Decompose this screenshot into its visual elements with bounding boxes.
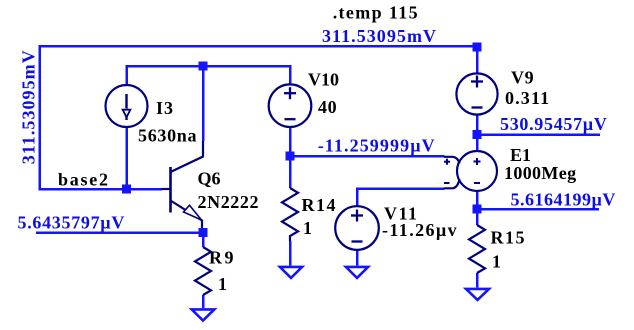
svg-text:-11.26µv: -11.26µv [382, 220, 458, 240]
svg-text:40: 40 [318, 97, 337, 117]
svg-text:1: 1 [218, 274, 227, 294]
svg-text:R14: R14 [302, 195, 338, 215]
svg-text:R9: R9 [209, 248, 236, 268]
svg-text:1: 1 [303, 218, 312, 238]
svg-text:5630na: 5630na [138, 126, 197, 146]
svg-text:R15: R15 [491, 228, 527, 248]
svg-text:E1: E1 [510, 145, 531, 165]
svg-text:Q6: Q6 [198, 169, 221, 189]
svg-text:base2: base2 [58, 170, 110, 190]
svg-text:V10: V10 [308, 70, 339, 90]
svg-text:311.53095mV: 311.53095mV [322, 26, 437, 46]
svg-text:-11.259999µV: -11.259999µV [318, 136, 436, 156]
svg-text:2N2222: 2N2222 [198, 192, 260, 212]
svg-text:1000Meg: 1000Meg [504, 163, 576, 183]
svg-text:5.6164199µV: 5.6164199µV [511, 190, 616, 210]
svg-text:1: 1 [492, 252, 501, 272]
svg-text:.temp 115: .temp 115 [333, 3, 419, 23]
svg-text:V9: V9 [511, 68, 534, 88]
svg-text:530.95457µV: 530.95457µV [500, 114, 608, 134]
svg-text:311.53095mV: 311.53095mV [19, 49, 39, 164]
svg-text:5.6435797µV: 5.6435797µV [18, 213, 126, 233]
svg-text:0.311: 0.311 [505, 88, 550, 108]
svg-text:I3: I3 [156, 98, 174, 118]
